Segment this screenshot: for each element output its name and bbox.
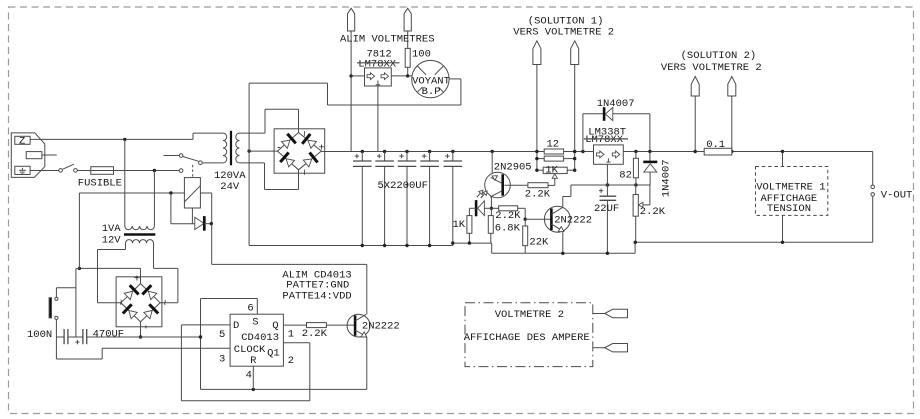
wire BR2 plus up — [140, 268, 142, 283]
capacitor C1 2200UF — [353, 150, 372, 247]
label ALIM VOLTMETRES — [340, 33, 435, 45]
svg-text:24V: 24V — [220, 181, 240, 193]
bridge BR2 diode c — [123, 304, 137, 318]
svg-text:+: + — [134, 274, 140, 286]
node ADJ cap — [606, 183, 609, 186]
svg-text:S: S — [252, 317, 258, 329]
capacitor 470UF — [75, 329, 87, 344]
U4 arrow out — [612, 151, 620, 158]
U4 arrow in — [597, 151, 605, 158]
lamp VOYANT B.P — [412, 60, 450, 98]
wire BR2 plus bus — [79, 267, 140, 269]
svg-text:2.2K: 2.2K — [640, 206, 666, 218]
connector pin sol1-a — [533, 41, 541, 65]
label VERS VOLTMETRE 2 a — [513, 26, 614, 38]
wire diode right leg — [211, 193, 213, 224]
bridge BR2 diode b — [142, 285, 156, 299]
wire Q3 collector — [212, 224, 367, 315]
label 22K — [529, 237, 549, 249]
bypass diode D4 1N4007 — [583, 107, 650, 151]
gnd bus A — [249, 245, 453, 247]
label 7812 — [367, 48, 392, 60]
wire contact-T1 — [202, 162, 223, 164]
wire BR1 minus — [249, 150, 277, 152]
resistor 2.2K Q1 base — [528, 183, 548, 188]
svg-text:+: + — [318, 143, 324, 155]
label 2.2K Q1 — [525, 188, 551, 200]
wire D feedback bottom — [181, 400, 309, 402]
node ladder a2 — [535, 157, 538, 160]
wire T1 sec bottom — [240, 163, 299, 190]
connector pin alim-1 — [348, 8, 355, 31]
wire sol2-a down — [694, 96, 697, 153]
wire sol2-b down — [730, 96, 733, 153]
wire base Q3 — [326, 324, 354, 326]
node clock gnd — [56, 337, 102, 359]
label LM78XX struck — [357, 58, 400, 70]
wire phase — [30, 138, 193, 140]
wire T2 sec right — [154, 243, 178, 303]
label 1K pot — [545, 165, 558, 177]
wire T1 sec top — [240, 109, 299, 133]
label 2N2905 — [494, 161, 532, 173]
svg-text:Z: Z — [19, 136, 25, 148]
svg-text:2N2222: 2N2222 — [554, 215, 592, 227]
wire pin1 down — [350, 31, 352, 152]
svg-text:3: 3 — [219, 354, 225, 366]
fuse F1 — [91, 167, 114, 175]
label 120VA 24V — [214, 170, 246, 193]
svg-text:5X2200UF: 5X2200UF — [378, 180, 428, 192]
svg-text:2: 2 — [288, 355, 294, 367]
label 2.2K bottom — [302, 328, 328, 340]
node ladder b1 — [573, 150, 576, 153]
node pin5 junction — [199, 335, 202, 338]
wire phase riser — [193, 133, 223, 139]
bridge BR1 diode b — [302, 134, 316, 148]
bridge BR1 diode d — [303, 153, 317, 167]
node pin4 junction — [252, 388, 255, 391]
node phase branch — [123, 138, 126, 141]
U2 gnd mark — [376, 81, 380, 85]
transformer T2 core — [124, 233, 155, 235]
label 100N — [27, 329, 52, 341]
label 1N4007 vertical — [660, 159, 672, 197]
connector pin alim-2 — [404, 8, 411, 31]
wire sol1-b down — [574, 65, 576, 171]
pin 5 label — [219, 329, 225, 341]
resistor 2.2K base — [307, 323, 327, 328]
label LM338T — [588, 126, 626, 138]
node Q2 base — [524, 218, 527, 221]
relay coil K1 — [184, 178, 200, 208]
gnd bus D — [635, 241, 873, 243]
transformer T2 primary — [125, 226, 155, 230]
node 7812 input — [349, 74, 352, 77]
mains plug J1 — [11, 133, 57, 178]
switch S1 — [59, 164, 77, 172]
capacitor 100N — [64, 329, 83, 344]
IC U3 CD4013 box — [230, 314, 283, 366]
svg-text:6.8K: 6.8K — [495, 223, 521, 235]
wire V1 top — [782, 152, 784, 167]
U4 gnd mark — [606, 158, 610, 162]
svg-text:1K: 1K — [453, 219, 466, 231]
capacitor C5 2200UF — [444, 150, 463, 245]
transformer T1 primary — [223, 133, 227, 163]
wire D feedback right — [309, 343, 311, 401]
label Q2 2N2222 — [554, 215, 592, 227]
resistor 22K — [523, 219, 528, 253]
U3 labels — [233, 317, 280, 368]
label VERS VOLTMETRE 2 b — [661, 62, 762, 74]
wire 470UF to pin5 — [87, 336, 201, 338]
pin 2 label — [288, 355, 294, 367]
wire pin2 Q1 — [283, 342, 309, 344]
label Q3 2N2222 — [362, 321, 400, 333]
svg-text:1N4007: 1N4007 — [660, 159, 672, 197]
pin 4 label — [246, 370, 252, 382]
bridge rectifier BR2 box — [116, 277, 162, 327]
wire pin2 down — [407, 31, 409, 48]
LED arrows — [477, 190, 487, 198]
transistor Q3 2N2222 — [347, 314, 370, 337]
svg-text:2.2K: 2.2K — [302, 328, 328, 340]
terminal vout a — [871, 185, 875, 189]
node 82 top — [634, 150, 637, 153]
connector pin sol2-b — [728, 77, 736, 97]
resistor 0.1 — [704, 148, 732, 155]
pin 1 label — [288, 328, 294, 340]
node Q1 emitter bus — [491, 150, 494, 153]
gnd bus C — [492, 252, 635, 254]
connector V2 a — [593, 309, 628, 317]
pin 6 label — [247, 302, 253, 314]
svg-text:12V: 12V — [102, 234, 122, 246]
wire D feedback left — [180, 325, 182, 401]
connector V2 b — [593, 344, 628, 352]
svg-text:2N2222: 2N2222 — [362, 321, 400, 333]
svg-text:1K: 1K — [545, 165, 558, 177]
node BR2 plus — [78, 267, 81, 270]
wire fuse-contact — [114, 170, 180, 172]
label TENSION — [767, 203, 811, 215]
U2 arrow in — [367, 73, 375, 80]
svg-text:PATTE14:VDD: PATTE14:VDD — [282, 291, 351, 303]
label SOLUTION 2 — [681, 50, 757, 62]
node coil left — [169, 191, 172, 194]
label PATTE14 VDD — [282, 291, 351, 303]
svg-text:VOLTMETRE 1: VOLTMETRE 1 — [756, 181, 825, 193]
bus +24V seg3 — [623, 151, 704, 153]
svg-text:ALIM VOLTMETRES: ALIM VOLTMETRES — [340, 33, 435, 45]
wire to pot wiper — [548, 174, 557, 186]
svg-text:~: ~ — [297, 131, 309, 137]
node D2 cathode — [210, 222, 213, 225]
svg-text:0.1: 0.1 — [706, 139, 725, 151]
wire neutral — [30, 170, 59, 172]
transistor Q2 2N2222 — [544, 206, 570, 232]
label AFFICHAGE — [761, 193, 818, 205]
capacitor C2 2200UF — [375, 150, 394, 247]
wire ADJ line — [571, 184, 650, 186]
node ladder b2 — [573, 157, 576, 160]
label 470UF — [93, 328, 125, 340]
diode D5 1N4007 — [643, 152, 657, 186]
svg-text:-: - — [276, 143, 282, 155]
bridge BR1 diode c — [280, 153, 294, 167]
svg-text:100N: 100N — [27, 329, 52, 341]
wire BP bottom — [56, 320, 64, 338]
node V1 top — [781, 150, 784, 153]
gnd bus rise — [634, 242, 636, 253]
svg-text:22K: 22K — [529, 237, 549, 249]
transformer T1 secondary — [236, 133, 240, 163]
label AFFICHAGE DES AMPERE — [464, 332, 590, 344]
label 82 — [619, 170, 632, 182]
label LM78XX-2 struck — [584, 134, 628, 146]
resistor 82 — [633, 152, 638, 186]
bridge BR2 labels — [114, 274, 170, 330]
label PATTE7 GND — [286, 280, 349, 292]
resistor 12 a — [544, 149, 563, 154]
label 2.2K Q2 — [495, 210, 521, 222]
regulator U4 LM338T box — [594, 145, 624, 164]
wire pin4 — [252, 366, 254, 389]
wire BR2 minus down — [140, 322, 142, 337]
bridge BR1 labels — [276, 131, 325, 176]
label 5X2200UF — [378, 180, 428, 192]
label FUSIBLE — [78, 177, 122, 189]
svg-text:12: 12 — [547, 139, 560, 151]
node LED junction — [490, 207, 493, 210]
bus +24V seg2 — [564, 151, 594, 153]
wire pin6 set — [201, 299, 258, 315]
resistor 6.8K — [488, 216, 493, 244]
node ladder a3 — [535, 169, 538, 172]
transistor Q1 2N2905 — [485, 172, 511, 198]
transformer T1 core — [230, 131, 232, 166]
wire 2.2K to base node — [518, 208, 526, 219]
bridge BR1 diode a — [282, 134, 296, 149]
svg-text:(SOLUTION 2): (SOLUTION 2) — [681, 50, 757, 62]
wire LED-2.2K — [491, 207, 498, 209]
svg-text:5: 5 — [219, 329, 225, 341]
label 0.1 — [706, 139, 725, 151]
diode D2 — [171, 216, 212, 231]
capacitor 22UF — [599, 189, 616, 256]
push button BP — [49, 297, 58, 319]
svg-text:D: D — [233, 320, 239, 332]
bridge BR2 diamond — [121, 284, 160, 322]
wire coil bottom — [191, 208, 193, 224]
wire diode left leg — [170, 193, 172, 224]
resistor 1K led — [467, 216, 472, 245]
wire reg ADJ down — [606, 164, 608, 196]
wire neutral drop — [153, 171, 155, 227]
gnd bus B — [453, 242, 492, 244]
svg-text:LM78XX: LM78XX — [585, 134, 624, 146]
label SOLUTION 1 — [528, 15, 604, 27]
resistor R 100 — [405, 48, 410, 76]
wire U2 out — [391, 75, 411, 77]
label ALIM CD4013 — [282, 270, 351, 282]
label 100 — [412, 48, 431, 60]
capacitor C3 2200UF — [398, 150, 417, 247]
wire Q3 emitter — [366, 337, 368, 389]
svg-text:B.P: B.P — [422, 86, 441, 98]
label VOLTMETRE 2 — [495, 309, 564, 321]
node U4 in bypass — [581, 150, 584, 153]
terminal vout b — [871, 193, 875, 197]
wire reset rail bottom — [201, 388, 367, 390]
label 22UF — [594, 203, 619, 215]
regulator U2 7812 box — [365, 68, 392, 86]
connector pin sol2-a — [691, 77, 699, 97]
wire vout bottom — [872, 196, 874, 242]
bridge BR1 diamond — [278, 133, 322, 170]
voltmetre 1 box — [756, 167, 828, 216]
transformer T2 secondary — [126, 240, 154, 243]
voltmetre 2 box — [465, 303, 593, 367]
wire T2 sec left — [98, 243, 126, 303]
wire relay supply riser — [78, 193, 80, 268]
wire BR2 to caps — [76, 269, 80, 337]
wire lamp return — [249, 79, 461, 105]
gnd vertical main — [248, 83, 250, 245]
capacitor C4 2200UF — [420, 150, 439, 247]
svg-text:AFFICHAGE DES AMPERE: AFFICHAGE DES AMPERE — [464, 332, 590, 344]
bridge BR2 diode d — [144, 304, 158, 318]
label V-OUT — [881, 190, 913, 202]
node ADJ 82 — [634, 183, 637, 186]
bridge BR2 diode a — [124, 285, 138, 299]
wire Q2 collector — [563, 185, 571, 207]
wire BP top — [56, 288, 76, 297]
pin 3 label — [219, 354, 225, 366]
svg-text:82: 82 — [619, 170, 632, 182]
label VOLTMETRE 1 — [756, 181, 825, 193]
svg-text:6: 6 — [247, 302, 253, 314]
svg-text:Q: Q — [272, 320, 278, 332]
svg-text:2.2K: 2.2K — [495, 210, 521, 222]
node BR2 minus — [139, 335, 142, 338]
label 1VA 12V — [102, 223, 122, 247]
wire switch-fuse — [77, 170, 91, 172]
label 1K led — [453, 219, 466, 231]
svg-text:VERS VOLTMETRE 2: VERS VOLTMETRE 2 — [513, 26, 614, 38]
relay contact K1a — [164, 154, 203, 165]
wire vout top — [872, 152, 874, 186]
node U4 out — [648, 150, 651, 153]
wire phase drop — [124, 139, 126, 226]
LED D3 — [469, 200, 491, 216]
U2 arrow out — [381, 73, 389, 80]
svg-text:~: ~ — [297, 169, 309, 175]
gnd bus drop — [491, 243, 493, 253]
svg-text:V-OUT: V-OUT — [881, 190, 913, 202]
svg-text:470UF: 470UF — [93, 328, 125, 340]
wire set-reset rail — [200, 299, 202, 390]
svg-text:TENSION: TENSION — [767, 203, 811, 215]
svg-text:FUSIBLE: FUSIBLE — [78, 177, 122, 189]
svg-text:Q1: Q1 — [267, 348, 280, 360]
wire Q2 base — [525, 218, 550, 220]
bus +24V seg4 — [732, 151, 873, 153]
svg-text:1N4007: 1N4007 — [597, 98, 635, 110]
resistor 2.2K Q2 base — [499, 206, 518, 211]
gnd bus step1 — [452, 243, 454, 245]
svg-text:CD4013: CD4013 — [241, 332, 279, 344]
wire Q2 emitter — [561, 232, 564, 255]
connector pin sol1-b — [571, 41, 579, 65]
wire coil left — [79, 192, 184, 194]
node neutral branch — [153, 169, 156, 172]
svg-text:1VA: 1VA — [102, 223, 122, 235]
svg-text:4: 4 — [246, 370, 252, 382]
wire CLOCK — [102, 347, 230, 349]
svg-text:VERS VOLTMETRE 2: VERS VOLTMETRE 2 — [661, 62, 762, 74]
svg-text:1: 1 — [288, 328, 294, 340]
wire Q1 base — [504, 184, 528, 186]
svg-text:120VA: 120VA — [214, 170, 246, 182]
node ladder b3 — [573, 169, 576, 172]
node lamp junction — [406, 74, 409, 77]
bridge rectifier BR1 box — [274, 129, 325, 173]
svg-text:22UF: 22UF — [594, 203, 619, 215]
node ladder a1 — [535, 150, 538, 153]
wire Q1 collector — [490, 196, 492, 215]
wire D input — [181, 324, 230, 326]
svg-text:~: ~ — [157, 299, 169, 305]
bus +24V seg1 — [321, 151, 544, 153]
resistor 12 b — [537, 156, 575, 161]
node BR1 minus — [247, 149, 250, 152]
wire V1 bottom — [781, 215, 784, 244]
wire coil right — [200, 192, 211, 194]
mech link dashed — [192, 165, 194, 177]
pot 2.2K — [633, 185, 650, 244]
label 12 — [547, 139, 560, 151]
svg-text:2.2K: 2.2K — [525, 188, 551, 200]
wire U2 gnd down — [377, 86, 379, 152]
label 6.8K — [495, 223, 521, 235]
svg-text:VOLTMETRE 2: VOLTMETRE 2 — [495, 309, 564, 321]
svg-text:2N2905: 2N2905 — [494, 161, 532, 173]
label 1N4007 top — [597, 98, 635, 110]
label pot 2.2K — [640, 206, 666, 218]
wire Q1 emitter — [491, 152, 493, 174]
pot 1K — [537, 167, 575, 173]
svg-text:R: R — [250, 355, 257, 367]
open contact terminal — [179, 169, 183, 173]
svg-text:~: ~ — [114, 299, 126, 305]
wire sol1-a down — [536, 65, 538, 171]
wire Q pin1 — [283, 324, 306, 326]
svg-text:100: 100 — [412, 48, 431, 60]
wire U2 in — [351, 75, 364, 77]
